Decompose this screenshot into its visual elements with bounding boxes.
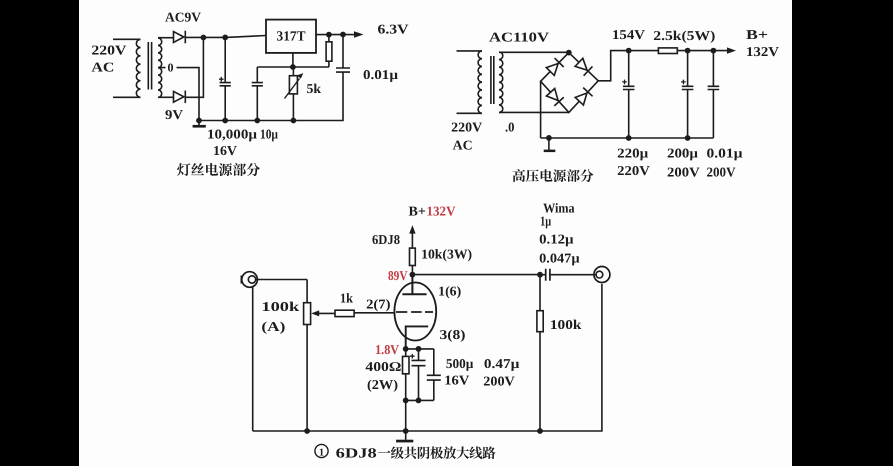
resistor R8 10k 3W [410,248,416,265]
svg-text:B+: B+ [409,203,426,218]
svg-text:0.47µ: 0.47µ [484,356,520,371]
caption: 6DJ8 amp title cjk part [378,446,496,459]
wire 317T ADJ pin [257,53,329,67]
svg-text:200V: 200V [667,164,700,179]
svg-text:1(6): 1(6) [438,284,461,299]
caption: HV supply section [513,169,594,182]
wire grid to 1k [354,312,394,314]
svg-text:AC: AC [453,138,473,153]
svg-text:6.3V: 6.3V [378,22,409,37]
svg-text:100k: 100k [261,299,299,314]
wire bridge - to ground rail [541,81,714,138]
capacitor C6 0.01u 200V [708,51,720,138]
svg-text:200V: 200V [483,374,515,389]
white schematic page [79,0,792,466]
ground G3 [405,431,407,440]
node: rail-C4 top [626,48,632,54]
wire cathode tie top [406,348,434,350]
wire 317T output rail [316,34,356,36]
capacitor C2 10u [252,67,263,121]
ground G2 [548,138,550,150]
capacitor C1 10,000u 16V [220,37,231,120]
capacitor C9 coupling [540,269,550,281]
triode V1 plate [402,275,426,295]
node: rail-C5 bottom [685,135,691,141]
caption: filament supply section [177,163,260,176]
node: rail-C6 top [711,48,717,54]
node: C7 top [416,346,422,352]
wire amp ground rail [253,284,602,431]
wire C9 to output jack [550,274,596,276]
bridge diode D3 (left-top) [546,58,564,76]
wire filament ground rail [199,72,343,120]
svg-text:9V: 9V [165,107,183,122]
node: R1 top [326,32,332,38]
wire secondary bottom to diode D2 [158,96,174,98]
node: ground junction [546,135,552,141]
svg-text:0.12µ: 0.12µ [539,232,574,247]
svg-text:132V: 132V [427,203,456,218]
arrow B+ output [727,47,736,53]
caption number (1) circled [315,444,328,457]
node: tie bottom left [403,398,409,404]
svg-text:2(7): 2(7) [366,296,390,311]
svg-text:89V: 89V [388,268,408,283]
capacitor C5 200u 200V [682,51,694,138]
node: ADJ junction [290,64,296,70]
wire D1 cathode to 317T input [185,36,266,38]
transformer T1 core [148,42,151,90]
triode V1 6DJ8 envelope [394,283,436,341]
wire cathode to ground rail [405,400,407,431]
node: rail-C1 [222,118,228,124]
diode D2 (9V rectifier) [174,91,184,102]
svg-text:16V: 16V [213,143,237,158]
svg-text:500µ: 500µ [446,356,474,371]
node: rail-5k [291,118,297,124]
svg-text:132V: 132V [746,44,779,59]
svg-text:220V: 220V [617,163,650,178]
svg-text:100k: 100k [550,317,582,332]
svg-text:200V: 200V [707,164,736,179]
diode D1 (AC9V rectifier) [174,32,184,43]
node: C1 top [222,35,228,41]
potentiometer R2 5k [292,67,294,121]
node: rail-C5 top [685,48,691,54]
bridge rectifier diamond [541,53,599,113]
resistor R11 400ohm 2W [405,349,407,401]
node: rail-100k [537,428,543,434]
output jack J2 [594,267,610,283]
wire bridge + output to B+ rail [598,51,727,81]
potentiometer R10 100k (A) [306,280,308,432]
resistor R12 100k output [539,275,541,431]
triode V1 cathode [406,326,429,349]
svg-text:AC: AC [91,60,114,75]
capacitor C8 0.47u 200V [427,349,441,401]
arrow 6.3V output [354,31,364,38]
wire T2 secondary bottom to bridge [499,111,569,113]
svg-text:1µ: 1µ [540,213,551,228]
svg-text:154V: 154V [612,27,645,42]
svg-text:0.01µ: 0.01µ [707,146,743,161]
transformer T2 secondary winding [499,52,503,112]
svg-text:16V: 16V [444,372,469,387]
node: plate junction [410,272,416,278]
resistor R1 (317T adj divider) [328,35,330,67]
svg-text:400Ω: 400Ω [365,359,401,374]
transformer T2 core [491,56,494,104]
ground G1 [198,121,200,126]
svg-text:220V: 220V [451,120,482,135]
svg-text:200µ: 200µ [667,146,698,161]
svg-text:317T: 317T [277,30,307,45]
bridge diode D4 (top-right) [575,58,593,76]
svg-text:3(8): 3(8) [440,327,466,342]
svg-text:(2W): (2W) [367,377,398,392]
svg-text:1.8V: 1.8V [375,342,399,357]
transformer T2 primary winding [457,51,483,113]
node: rail-cathode [403,428,409,434]
arrow B+ feed [409,225,415,233]
svg-text:10,000µ: 10,000µ [207,127,257,142]
node: bridge top vertex [566,50,572,56]
wire plate to coupling cap [412,274,540,276]
resistor R9 1k grid stopper [335,310,354,316]
bridge diode D6 (bottom-right) [575,88,593,106]
node: coupling junction [537,272,543,278]
svg-text:AC110V: AC110V [489,30,549,45]
wire J1 to pot [256,279,307,281]
transformer T1 secondary winding [158,38,162,97]
svg-text:1k: 1k [340,291,353,306]
svg-text:220µ: 220µ [617,146,648,161]
svg-text:10k(3W): 10k(3W) [421,247,472,262]
wiper arrow of volume pot [318,312,335,314]
wire center tap lead [158,68,199,121]
node: tie bottom C7 [416,398,422,404]
svg-text:1: 1 [319,447,324,458]
node: D1/D2 junction [201,35,207,41]
svg-text:(A): (A) [261,319,285,334]
svg-text:.0: .0 [505,120,515,135]
node: rail-ground [196,118,202,124]
input jack J1 [242,272,258,288]
bridge diode D5 (left-bottom) [546,88,564,106]
wire J1 ground drop [252,287,254,431]
triode V1 grid (dashed) [396,311,433,313]
svg-text:0.01µ: 0.01µ [363,67,398,82]
svg-text:0: 0 [168,61,174,75]
regulator U1 317T [266,20,316,53]
node: rail-C4 bottom [626,135,632,141]
resistor R7 2.5k 5W [658,48,677,54]
capacitor C3 0.01u [336,35,350,73]
svg-text:220V: 220V [91,43,126,58]
svg-text:B+: B+ [746,27,768,42]
node: rail-pot [304,428,310,434]
capacitor C4 220u 220V [623,51,635,138]
svg-text:5k: 5k [307,81,322,96]
svg-text:10µ: 10µ [260,127,278,142]
node: cathode junction [403,346,409,352]
svg-text:6DJ8: 6DJ8 [336,447,377,462]
svg-text:6DJ8: 6DJ8 [372,232,400,247]
svg-text:2.5k(5W): 2.5k(5W) [653,28,715,43]
node: C3 top [340,32,346,38]
wire secondary top to diode D1 [158,37,174,39]
svg-text:AC9V: AC9V [165,10,201,25]
wire cathode tie bottom [406,399,434,401]
capacitor C7 500u 16V [412,349,426,401]
transformer T1 primary winding [113,39,141,97]
wire T2 secondary top to bridge [499,51,569,53]
svg-text:0.047µ: 0.047µ [539,251,580,266]
wire D2 cathode up to output rail [185,38,203,98]
node: rail-C2 [254,118,260,124]
